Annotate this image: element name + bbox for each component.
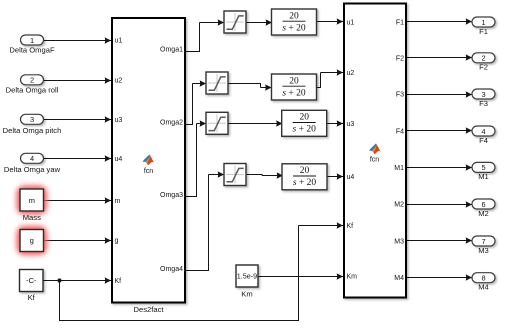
outport 6 M2 — [472, 199, 495, 218]
svg-text:u2: u2 — [115, 78, 123, 85]
wire Omga3 to saturation3 — [186, 124, 206, 197]
pin F4 — [396, 129, 404, 136]
svg-text:2: 2 — [30, 76, 34, 85]
constant block 1.5e-9 Km — [236, 265, 258, 298]
wire TF4 to fcn2 u4 — [326, 176, 343, 178]
transfer fcn TF3 20/(s+20) — [282, 110, 327, 136]
pin M1 — [394, 165, 404, 172]
constant block g — [20, 230, 44, 252]
svg-text:F4: F4 — [396, 129, 404, 136]
svg-text:F2: F2 — [396, 55, 404, 62]
transfer fcn TF1 20/(s+20) — [272, 9, 317, 35]
saturation block 2 — [206, 72, 228, 94]
svg-text:Omga2: Omga2 — [160, 120, 183, 127]
transfer fcn TF4 20/(s+20) — [282, 164, 327, 190]
pin m — [115, 198, 121, 205]
inport 2 Delta Omga roll — [6, 75, 59, 95]
pin u4 — [347, 174, 355, 181]
svg-text:F4: F4 — [479, 136, 488, 145]
pin u4 — [115, 156, 123, 163]
inport 1 Delta OmgaF — [9, 35, 55, 55]
pin Omga4 — [160, 266, 183, 273]
svg-text:u4: u4 — [347, 174, 355, 181]
wire Kf branch to fcn2 Kf — [60, 226, 344, 321]
svg-text:u3: u3 — [115, 117, 123, 124]
pin g — [115, 238, 119, 245]
svg-text:u1: u1 — [115, 38, 123, 45]
outport 1 F1 — [472, 17, 495, 36]
saturation block 1 — [224, 11, 246, 33]
svg-text:3: 3 — [481, 90, 485, 99]
svg-text:8: 8 — [481, 274, 485, 283]
svg-text:2: 2 — [481, 54, 485, 63]
svg-text:7: 7 — [481, 237, 485, 246]
pin u1 — [115, 38, 123, 45]
svg-text:Omga3: Omga3 — [160, 192, 183, 199]
transfer fcn TF2 20/(s+20) — [272, 74, 317, 100]
pin M4 — [394, 275, 404, 282]
wire inport2 to Des2fact u2 — [44, 80, 112, 82]
wire inport4 to Des2fact u4 — [44, 158, 112, 160]
constant block -C- Kf — [20, 270, 44, 303]
constant g error glow — [17, 226, 48, 255]
svg-text:M4: M4 — [394, 275, 404, 282]
pin Omga3 — [160, 192, 183, 199]
wire fcn2 M1 to outport5 — [407, 167, 472, 169]
svg-text:u1: u1 — [347, 20, 355, 27]
svg-text:Km: Km — [241, 289, 252, 298]
node Kf junction — [57, 278, 61, 282]
wire fcn2 F2 to outport2 — [407, 57, 472, 59]
svg-text:4: 4 — [481, 127, 485, 136]
svg-text:F1: F1 — [396, 20, 404, 27]
saturation block 4 — [224, 164, 246, 186]
outport 4 F4 — [472, 126, 495, 145]
wire Omga4 to saturation4 — [186, 175, 224, 271]
svg-text:M2: M2 — [478, 209, 489, 218]
svg-text:u2: u2 — [347, 70, 355, 77]
outport 2 F2 — [472, 53, 495, 72]
svg-text:Delta OmgaF: Delta OmgaF — [9, 46, 55, 55]
wire fcn2 M4 to outport8 — [407, 277, 472, 279]
svg-text:g: g — [30, 236, 34, 245]
constant m Mass error glow — [17, 186, 48, 215]
pin Omga2 — [160, 120, 183, 127]
svg-text:1: 1 — [30, 36, 34, 45]
wire fcn2 F3 to outport3 — [407, 94, 472, 96]
svg-text:M4: M4 — [478, 283, 489, 292]
wire Kf constant to Des2fact Kf — [43, 280, 111, 282]
svg-text:g: g — [115, 238, 119, 245]
wire saturation3 to TF3 — [228, 123, 283, 125]
wire TF3 to fcn2 u3 — [326, 123, 343, 125]
wire inport1 to Des2fact u1 — [44, 40, 112, 42]
MATLAB function block U2 fcn — [344, 4, 406, 298]
inport 4 Delta Omga yaw — [4, 153, 61, 174]
wire saturation4 to TF4 — [246, 175, 283, 176]
wire TF2 to fcn2 u2 — [317, 73, 344, 88]
wire Mass m to Des2fact m — [44, 200, 112, 202]
svg-text:Kf: Kf — [347, 223, 354, 230]
pin F3 — [396, 92, 404, 99]
wire g to Des2fact g — [44, 240, 112, 242]
svg-text:Omga4: Omga4 — [160, 266, 183, 273]
wire fcn2 M2 to outport6 — [407, 204, 472, 206]
svg-text:M2: M2 — [394, 202, 404, 209]
svg-text:Omga1: Omga1 — [160, 47, 183, 54]
svg-text:M1: M1 — [478, 172, 489, 181]
wire TF1 to fcn2 u1 — [316, 21, 343, 23]
svg-text:u3: u3 — [347, 121, 355, 128]
wire saturation2 to TF2 — [228, 84, 272, 88]
pin Omga1 — [160, 47, 183, 54]
svg-text:Kf: Kf — [28, 293, 36, 302]
svg-text:-C-: -C- — [26, 276, 37, 285]
svg-text:1: 1 — [481, 18, 485, 27]
svg-text:Delta Omga pitch: Delta Omga pitch — [3, 126, 62, 135]
wire inport3 to Des2fact u3 — [44, 119, 112, 121]
wire fcn2 M3 to outport7 — [407, 240, 472, 242]
svg-text:Km: Km — [347, 274, 358, 281]
svg-text:fcn: fcn — [144, 168, 153, 175]
pin u3 — [347, 121, 355, 128]
pin u2 — [347, 70, 355, 77]
svg-text:F3: F3 — [396, 92, 404, 99]
pin F1 — [396, 20, 404, 27]
pin M2 — [394, 202, 404, 209]
svg-text:F2: F2 — [479, 63, 488, 72]
MATLAB logo U1 — [143, 154, 154, 175]
svg-text:Mass: Mass — [23, 213, 41, 222]
svg-text:3: 3 — [30, 115, 34, 124]
svg-text:4: 4 — [30, 154, 34, 163]
outport 3 F3 — [472, 89, 495, 108]
wire Omga2 to saturation2 — [186, 84, 206, 125]
MATLAB logo U2 — [369, 143, 380, 163]
saturation block 3 — [206, 112, 228, 134]
svg-text:M3: M3 — [394, 239, 404, 246]
svg-text:fcn: fcn — [370, 157, 379, 164]
wire fcn2 F4 to outport4 — [407, 130, 472, 132]
svg-text:1.5e-9: 1.5e-9 — [237, 272, 257, 281]
svg-text:m: m — [115, 198, 121, 205]
pin F2 — [396, 55, 404, 62]
pin u1 — [347, 20, 355, 27]
svg-text:Kf: Kf — [115, 278, 122, 285]
wire Omga1 to saturation1 — [186, 23, 224, 52]
svg-text:F1: F1 — [479, 27, 488, 36]
wire saturation1 to TF1 — [246, 22, 272, 24]
inport 3 Delta Omga pitch — [3, 114, 62, 135]
svg-text:F3: F3 — [479, 99, 488, 108]
MATLAB function block U1 Des2fact — [112, 18, 185, 314]
svg-text:6: 6 — [481, 200, 485, 209]
svg-text:Delta Omga yaw: Delta Omga yaw — [4, 165, 61, 174]
wire fcn2 F1 to outport1 — [407, 21, 472, 23]
svg-text:M1: M1 — [394, 165, 404, 172]
constant block m Mass — [20, 189, 44, 222]
outport 8 M4 — [472, 273, 495, 292]
pin Kf — [347, 223, 354, 230]
svg-text:Des2fact: Des2fact — [134, 305, 165, 314]
pin M3 — [394, 239, 404, 246]
pin u2 — [115, 78, 123, 85]
outport 5 M1 — [472, 162, 495, 181]
pin u3 — [115, 117, 123, 124]
outport 7 M3 — [472, 236, 495, 255]
pin Kf — [115, 278, 122, 285]
svg-text:m: m — [29, 196, 35, 205]
svg-text:Delta Omga roll: Delta Omga roll — [6, 85, 59, 94]
svg-text:5: 5 — [481, 163, 485, 172]
pin Km — [347, 274, 358, 281]
wire Km constant to fcn2 Km — [258, 276, 343, 278]
svg-text:M3: M3 — [478, 246, 489, 255]
svg-text:u4: u4 — [115, 156, 123, 163]
